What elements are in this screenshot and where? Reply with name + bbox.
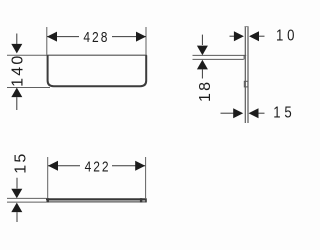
10 dim line left segment [230,35,235,37]
428 dim: left extension line [46,27,48,55]
140 dim: top stub above down-arrow [16,34,18,45]
15 dim line right segment [258,112,264,114]
18 label (rotated) [197,80,214,102]
profile left vertical line [244,26,246,123]
428 right arrow [136,32,146,42]
top view: top edge (thick) [46,198,146,200]
extension line left-top for 15 dim [7,197,47,199]
15 left arrow (points right) [233,108,243,118]
extension line left-bottom for 15 dim [7,201,47,203]
svg-text:15: 15 [273,105,295,122]
15(top view) dim: upper stub [16,178,18,189]
140 dim: bottom stub below up-arrow [16,97,18,110]
15(top view) dim: bottom stub [16,212,18,222]
18 dim: down arrow [197,46,208,56]
428 dim line right segment [112,36,146,38]
428 dim: right extension line [145,27,147,55]
profile arm top line [193,54,247,56]
422 right arrow [135,161,145,171]
18 dim: lower stub [201,69,203,78]
140 dim: up arrow [11,88,22,98]
extension line top-left for 140 dim (merges with shelf top edge) [7,54,47,56]
shelf front top edge [47,54,147,56]
428 left arrow [47,32,57,42]
422 dim: right extension line [145,157,147,199]
428 dim line left segment [47,36,79,38]
422 label [85,158,111,175]
shelf front outline (sides + rounded bottom) [48,55,147,86]
svg-text:10: 10 [276,28,298,45]
extension line bottom-left for 140 dim [7,87,50,89]
top view: bottom edge [46,201,146,203]
svg-text:18: 18 [197,80,214,102]
140 label (rotated) [10,54,27,87]
10 label [276,28,298,45]
422 dim line left segment [48,165,80,167]
top view: right end cap [145,198,147,202]
10 dim line right segment [259,35,265,37]
422 dim line right segment [112,165,145,167]
15 dim line left segment [221,112,234,114]
422 left arrow [48,161,58,171]
15 label [273,105,295,122]
18 dim: top stub [201,35,203,45]
15(top view) label (rotated) [12,152,29,174]
profile right vertical line [247,26,249,123]
profile arm end step [243,55,245,59]
svg-text:140: 140 [10,54,27,87]
15 right arrow (points left) [249,108,259,118]
428 label [83,29,109,46]
15(top view) dim: up arrow [11,203,22,213]
svg-text:422: 422 [85,158,111,175]
422 dim: left extension line [47,157,49,198]
top view: left wall tick [47,198,49,202]
svg-text:15: 15 [12,152,29,174]
top view: right wall tick [140,198,142,202]
10 right arrow (points left) [249,31,259,41]
10 left arrow (points right) [234,31,244,41]
profile clip detail box [244,81,248,87]
svg-text:428: 428 [83,29,109,46]
profile top cap [245,26,249,28]
18 dim: up arrow [197,60,208,70]
140 dim: down arrow [11,44,22,54]
15(top view) dim: down arrow [11,189,22,199]
profile arm bottom line [193,58,244,60]
